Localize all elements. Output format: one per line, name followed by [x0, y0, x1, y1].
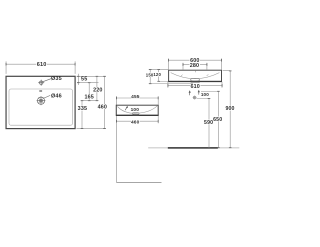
- front drain ellipse: [190, 78, 199, 81]
- dim 610 (front bottom) line: [168, 84, 222, 86]
- svg-text:455: 455: [131, 94, 140, 100]
- tap hole circle (Ø35): [38, 80, 44, 86]
- svg-text:460: 460: [98, 105, 107, 111]
- side dims: [115, 97, 117, 100]
- plan view outer rect: [6, 76, 75, 128]
- label 455: [131, 94, 140, 98]
- corner line bottom: [116, 181, 161, 183]
- dim 335 line: [81, 101, 83, 129]
- dim 900 line: [229, 71, 231, 148]
- side drain dark blob: [132, 114, 139, 116]
- plan right: extension line bottom edge: [77, 128, 106, 130]
- dim 610 (plan top) extension lines: [5, 61, 7, 74]
- svg-text:335: 335: [78, 106, 87, 112]
- svg-text:900: 900: [225, 106, 234, 112]
- dim 650 line: [217, 91, 219, 148]
- label 335: [77, 106, 87, 111]
- side drain ellipse: [132, 112, 139, 114]
- side bowl curve: [117, 106, 157, 114]
- front left 150 bottom ext line: [149, 83, 193, 85]
- label 900: [226, 106, 235, 111]
- label 150 and 120: [146, 73, 153, 77]
- dim 220 line: [96, 76, 98, 100]
- plan right: extension line tap hole level: [77, 82, 99, 84]
- label 600: [190, 58, 201, 62]
- svg-text:Ø46: Ø46: [51, 94, 62, 100]
- svg-text:120: 120: [153, 72, 161, 77]
- front bowl curve: [171, 73, 220, 79]
- ext line rim to 900 line: [223, 70, 231, 72]
- label 220: [93, 87, 103, 92]
- svg-text:590: 590: [204, 120, 213, 126]
- label 460 (plan): [97, 104, 107, 109]
- label 165: [84, 94, 94, 99]
- arrow ticks plan 610: [6, 63, 75, 66]
- svg-text:165: 165: [84, 95, 93, 101]
- floor line light left: [148, 147, 168, 149]
- floor line dark middle: [168, 147, 218, 149]
- svg-text:610: 610: [37, 62, 47, 68]
- dim 600 ext lines: [168, 59, 170, 71]
- dim 150 line (front left): [149, 70, 151, 84]
- dim 165 line: [88, 83, 90, 101]
- label 460 (side): [131, 120, 140, 124]
- dim 55 line: [77, 74, 79, 85]
- label 610 (front bottom): [190, 84, 201, 89]
- dim 455 ext line left (long, runs down to corner): [115, 96, 117, 182]
- side view outer rect: [116, 105, 158, 115]
- svg-text:Ø35: Ø35: [51, 76, 62, 82]
- supply arrow right: [198, 91, 200, 95]
- floor line light right: [218, 147, 239, 149]
- plan right: extension line top edge: [77, 75, 106, 77]
- label 280: [190, 63, 201, 67]
- side view bottom thick edge: [116, 114, 159, 116]
- front left top ext line: [149, 69, 169, 71]
- front left 120 bottom ext line: [158, 80, 169, 82]
- plan view inner basin rect: [9, 89, 73, 125]
- dim 590 line: [208, 99, 210, 148]
- overflow dash on deck line: [39, 91, 42, 92]
- arrow ticks (all dimension line ends): [77, 59, 232, 148]
- leader line for Ø35: [43, 79, 51, 82]
- dim 460 line (plan): [104, 76, 106, 128]
- label 590: [204, 120, 213, 125]
- plan right: extension line drain level: [81, 100, 99, 102]
- leader line for Ø46: [44, 95, 50, 98]
- front view bottom thick edge: [168, 81, 222, 83]
- waste outlet symbol: [193, 96, 197, 100]
- dim 460 (side) right ext: [157, 116, 159, 123]
- front drain dark blob: [190, 81, 200, 83]
- dim 610 (front bottom) ext lines: [167, 82, 169, 88]
- svg-text:220: 220: [93, 88, 102, 94]
- label 610 (plan top): [36, 62, 47, 67]
- front dims: [168, 59, 170, 62]
- svg-text:100: 100: [131, 107, 140, 113]
- svg-text:100: 100: [201, 92, 209, 97]
- label 650: [213, 117, 222, 122]
- drain hole circle (Ø46): [37, 96, 46, 105]
- dim 280 line: [183, 64, 207, 66]
- supply arrow left: [189, 92, 191, 96]
- dim 460 (side) line: [116, 120, 158, 122]
- bowl tick marks: [181, 75, 183, 77]
- front view outer rect: [169, 70, 222, 81]
- svg-text:280: 280: [190, 63, 199, 69]
- side 100 leader arrow: [125, 107, 127, 111]
- dim 455 line: [116, 97, 158, 99]
- svg-text:55: 55: [81, 76, 87, 82]
- plan right dims: [77, 75, 80, 77]
- dim 120 line (front left): [158, 70, 160, 82]
- svg-text:610: 610: [190, 84, 199, 90]
- install dims: [229, 70, 232, 72]
- ext line supplies to 650 line: [201, 90, 218, 92]
- dim 600 line: [169, 59, 222, 61]
- dim 610 (plan top) dimension line: [6, 63, 75, 65]
- dim 280 ext lines: [182, 63, 184, 70]
- svg-text:650: 650: [213, 117, 222, 123]
- ext line waste to 590 line: [197, 98, 209, 100]
- svg-text:460: 460: [131, 120, 140, 126]
- dim 455 ext line right: [157, 96, 159, 104]
